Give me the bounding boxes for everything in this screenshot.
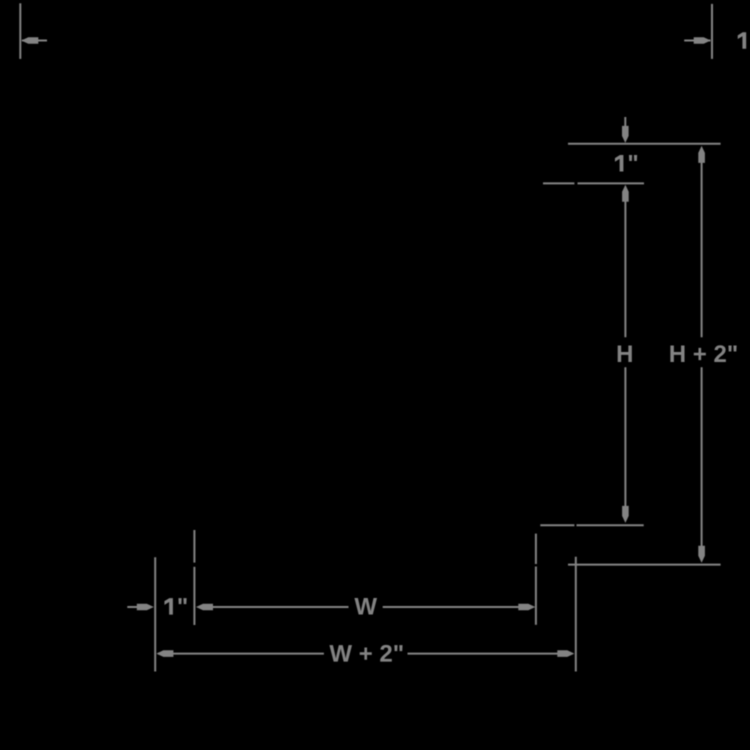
W dim right arrowhead [518, 604, 535, 611]
opening left edge extension line (lower part) [193, 567, 195, 625]
top dimension: left extension line [19, 3, 21, 59]
1 inch bottom dim right-pointing outside arrowhead [137, 604, 154, 611]
H+2 dim up arrowhead [698, 146, 705, 163]
opening right edge extension line (upper part) [535, 534, 537, 564]
opening bottom edge extension line (right part) [577, 524, 644, 526]
opening top edge extension line (left part) [543, 182, 574, 184]
top dimension: left stub wire [22, 40, 47, 42]
label W + 2 inch [329, 645, 402, 662]
W dim line right segment [383, 606, 533, 608]
label W [354, 598, 377, 615]
W+2 dim line left segment [158, 653, 324, 655]
mat left edge extension line [154, 557, 156, 671]
H+2 dim stem upper [701, 162, 703, 338]
top dimension: right stub wire [684, 40, 710, 42]
mat top edge line [568, 143, 721, 145]
H+2 dim stem lower [701, 367, 703, 547]
H dim down arrowhead [622, 506, 629, 523]
1 inch vertical dim down arrowhead [622, 126, 629, 143]
1 inch bottom dim: outside arrow tail [127, 606, 139, 608]
W+2 dim line right segment [408, 653, 573, 655]
W+2 dim right arrowhead [557, 650, 574, 657]
top dim right arrowhead [694, 37, 711, 44]
1 inch vertical dim: arrow tail above [624, 117, 626, 128]
opening right edge extension line (lower part) [535, 567, 537, 625]
opening bottom edge extension line (left part) [540, 524, 574, 526]
W+2 dim left arrowhead [156, 650, 173, 657]
H dim stem lower [624, 367, 626, 507]
mat right edge extension line [575, 557, 577, 672]
W dim line left segment [198, 606, 349, 608]
H dim stem upper [624, 200, 626, 337]
top dimension: right extension line [711, 4, 713, 59]
mat bottom edge line [568, 564, 721, 566]
label 1 inch (bottom left) [164, 598, 186, 615]
label 1 inch (top right, clipped at canvas edge) [738, 32, 750, 49]
H dim up arrowhead [622, 185, 629, 202]
label H [618, 345, 632, 362]
W dim left arrowhead [196, 604, 213, 611]
H+2 dim down arrowhead [698, 546, 705, 563]
opening top edge extension line (right part) [578, 182, 645, 184]
label H + 2 inch [670, 345, 736, 362]
top dim left arrowhead [21, 37, 38, 44]
label 1 inch (vertical dim top right) [615, 155, 637, 172]
opening left edge extension line (upper part) [193, 530, 195, 563]
